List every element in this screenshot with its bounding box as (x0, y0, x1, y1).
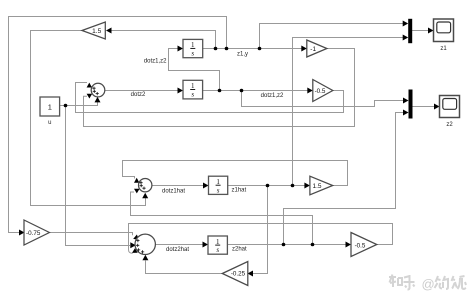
wire J4 loop to integrator I1 input (169, 49, 220, 91)
scope z2 (440, 96, 460, 129)
wire z2hat I4 output to gain -0.5b (227, 244, 346, 246)
node J2 on z1,y (225, 47, 229, 51)
svg-text:s: s (216, 246, 219, 254)
wire gain -1 output feedback to sum S1 top (84, 49, 355, 127)
arrow into mux1 input2 (403, 35, 409, 41)
arrow into gain -1 (301, 46, 307, 52)
integrator I1 (183, 39, 203, 57)
arrowheads (19, 21, 440, 277)
arrow into gain -0.75 (19, 230, 25, 236)
svg-text:@: @ (422, 277, 435, 292)
wire mux2 to scope z2 (413, 106, 436, 108)
integrator I3 (209, 176, 228, 194)
gain -0.75 (24, 220, 49, 245)
sum S2 (139, 179, 152, 192)
sum S3 (135, 234, 155, 254)
wire dotz2hat sum S3 to integrator I4 (155, 244, 203, 246)
gain -1 (307, 40, 327, 57)
wire z1,y main line I1 output to gain -1 (203, 48, 307, 50)
svg-text:dotz1,z2: dotz1,z2 (261, 93, 284, 99)
gain -0.5 (313, 80, 333, 102)
node J6 on z1hat (266, 184, 270, 188)
arrow into integrator I4 (203, 242, 209, 248)
gain 1.5b (310, 176, 333, 195)
mux1 (408, 19, 412, 43)
node J5 on dotz1,z2 (240, 89, 244, 93)
svg-text:-0.5: -0.5 (315, 88, 326, 95)
svg-text:1: 1 (216, 178, 220, 186)
arrow into gain -0.5b (346, 242, 352, 248)
svg-text:dotz2: dotz2 (131, 92, 146, 98)
arrow into integrator I2 (178, 88, 184, 94)
wire dotz2 sum S1 to integrator I2 (105, 90, 178, 92)
wire J2 top loop to gain -0.75 (9, 17, 227, 233)
svg-text:dotz1,z2: dotz1,z2 (144, 59, 167, 65)
wire J7 up to mux1 input2 (293, 38, 404, 186)
svg-text:z2: z2 (446, 122, 453, 128)
arrow into sum S3 left middle (130, 242, 136, 248)
svg-text:-0.5: -0.5 (355, 242, 366, 249)
arrow into sum S1 bottom (95, 97, 101, 103)
arrow into sum S3 top-left (133, 235, 139, 240)
wire gain 1.5b output loop to sum S2 top (123, 161, 348, 186)
svg-text:1: 1 (191, 82, 195, 90)
gain 1.5 left-pointing (82, 22, 105, 39)
arrow into integrator I1 (178, 46, 184, 52)
arrow into sum S1 left (87, 94, 93, 99)
wire mux1 to scope z1 (412, 30, 430, 32)
wire constant u output (60, 101, 98, 106)
mux2 (409, 90, 413, 119)
sum S1 (91, 83, 105, 97)
constant block u (40, 97, 60, 126)
arrow into sum S3 left lower (132, 248, 138, 253)
svg-text:1.5: 1.5 (312, 183, 321, 190)
arrow into scope z1 (428, 28, 434, 34)
wire J9 feedback to sum S2 left (131, 192, 313, 245)
svg-text:1: 1 (48, 102, 52, 111)
gain -0.5b (351, 233, 377, 257)
wire J3 to mux1 input1 (260, 24, 404, 49)
arrow into mux2 input2 (403, 110, 409, 116)
svg-text:s: s (191, 91, 194, 99)
node J7 on z1hat (291, 184, 295, 188)
gain -0.25 left-pointing (222, 262, 248, 286)
node J8 on z2hat (282, 243, 286, 247)
wire gain -0.25 output to sum S3 bottom (146, 261, 223, 274)
arrow into gain -0.5 (307, 88, 313, 94)
wire J1 up to gain 1.5 input (111, 31, 216, 49)
wire J5 to mux2 input1 (242, 91, 404, 107)
arrow into scope z2 (434, 104, 440, 110)
wire J6 down to gain -0.25 input (251, 186, 268, 274)
svg-text:z1,y: z1,y (237, 52, 248, 58)
wire z1hat I3 output to gain 1.5b (228, 185, 305, 187)
wire J8 up to mux2 input2 (284, 113, 404, 245)
wire gain -0.75 output to sum S3 left (50, 233, 133, 235)
arrow into mux2 input1 (403, 98, 409, 104)
arrow into sum S2 left (134, 189, 140, 194)
node J1 on z1,y (214, 47, 218, 51)
svg-text:s: s (217, 186, 220, 194)
node J9 on z2hat (311, 243, 315, 247)
svg-text:-0.25: -0.25 (231, 271, 246, 278)
watermark zhihu (389, 275, 466, 292)
arrow into gain -0.25 (248, 271, 254, 277)
integrator I4 (208, 236, 227, 254)
wire u down to sum S3 (66, 106, 130, 246)
arrow into sum S1 top-left (87, 83, 92, 88)
svg-text:z2hat: z2hat (232, 247, 247, 253)
arrow into mux1 input1 (403, 21, 409, 27)
wire gain -0.5b output loop to sum S3 top (129, 224, 393, 254)
svg-text:s: s (191, 50, 194, 58)
wire dotz1hat sum S2 to integrator I3 (152, 185, 204, 187)
scope z1 (434, 19, 454, 52)
wire gain -0.5 output feedback to sum S1 left (76, 83, 344, 113)
node Ju (64, 104, 68, 108)
svg-text:z1: z1 (440, 46, 447, 52)
svg-text:1.5: 1.5 (92, 28, 101, 35)
arrow into sum S2 top-left (134, 178, 139, 183)
svg-text:1: 1 (191, 41, 195, 49)
arrow into sum S3 bottom (142, 255, 148, 260)
svg-text:u: u (48, 120, 51, 126)
integrator I2 (183, 80, 203, 99)
wire gain 1.5 output loop to sum S2 bottom (31, 31, 146, 206)
svg-text:dotz2hat: dotz2hat (166, 247, 189, 253)
node J3 on z1,y (258, 47, 262, 51)
arrow into gain 1.5b (304, 183, 310, 189)
svg-text:-1: -1 (310, 46, 316, 53)
svg-text:dotz1hat: dotz1hat (162, 189, 185, 195)
arrow into gain 1.5 (106, 28, 112, 34)
svg-text:1: 1 (216, 238, 220, 246)
wire dotz1,z2 I2 output to gain -0.5 (203, 90, 310, 92)
svg-text:-0.75: -0.75 (26, 230, 41, 237)
node J4 on dotz1,z2 (218, 89, 222, 93)
arrow into sum S2 bottom (142, 193, 148, 199)
svg-text:z1hat: z1hat (232, 188, 247, 194)
arrow into integrator I3 (203, 183, 209, 189)
